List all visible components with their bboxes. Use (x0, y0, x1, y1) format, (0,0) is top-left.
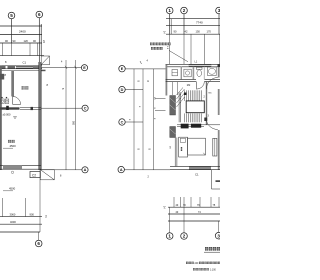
svg-text:40: 40 (176, 211, 179, 214)
svg-text:8: 8 (128, 119, 130, 121)
svg-text:75: 75 (213, 204, 216, 207)
svg-text:8: 8 (5, 60, 7, 64)
svg-text:900: 900 (30, 213, 35, 217)
svg-text:E: E (83, 66, 86, 70)
svg-text:M1: M1 (209, 93, 213, 95)
svg-text:24: 24 (42, 40, 46, 43)
svg-text:2: 2 (204, 96, 206, 99)
svg-text:3: 3 (218, 8, 220, 13)
svg-text:90: 90 (33, 39, 36, 43)
svg-text:2: 2 (183, 8, 186, 13)
svg-text:1:100: 1:100 (210, 270, 216, 272)
svg-text:4500: 4500 (9, 187, 16, 191)
svg-text:4500: 4500 (10, 144, 17, 148)
svg-text:C1: C1 (23, 61, 27, 65)
svg-text:42: 42 (185, 29, 188, 33)
svg-text:C2: C2 (32, 174, 36, 178)
svg-text:C: C (121, 120, 124, 124)
svg-text:6: 6 (37, 241, 40, 246)
svg-text:3: 3 (217, 233, 220, 238)
svg-text:170: 170 (207, 29, 212, 33)
svg-text:±0.000: ±0.000 (3, 113, 11, 117)
svg-text:28: 28 (168, 146, 170, 149)
svg-text:14: 14 (163, 206, 166, 209)
svg-text:1: 1 (168, 234, 171, 239)
svg-text:6: 6 (38, 12, 41, 17)
svg-text:4: 4 (147, 60, 149, 63)
svg-text:3: 3 (208, 115, 210, 118)
svg-text:74: 74 (198, 211, 201, 214)
svg-text:8: 8 (146, 81, 149, 83)
svg-text:8: 8 (138, 106, 140, 108)
svg-text:90: 90 (174, 29, 177, 33)
svg-text:74: 74 (44, 215, 47, 218)
svg-text:8: 8 (61, 88, 64, 90)
svg-text:900: 900 (72, 121, 75, 126)
svg-text:D: D (121, 88, 124, 92)
svg-text:8: 8 (47, 83, 49, 87)
svg-text:150: 150 (196, 29, 201, 33)
svg-text:40: 40 (176, 204, 179, 207)
svg-text:2: 2 (148, 176, 150, 179)
svg-text:14: 14 (163, 31, 166, 34)
svg-text:5: 5 (10, 13, 13, 18)
svg-text:8: 8 (148, 149, 151, 151)
svg-text:70: 70 (183, 204, 186, 207)
svg-text:M2: M2 (187, 84, 191, 87)
svg-text:7740: 7740 (196, 20, 203, 24)
svg-text:8: 8 (137, 149, 140, 151)
svg-text:A: A (120, 168, 123, 172)
svg-text:2: 2 (183, 234, 186, 239)
svg-text:120: 120 (24, 39, 29, 43)
svg-text:2400: 2400 (19, 29, 26, 33)
svg-text:C: C (84, 107, 87, 111)
svg-text:240: 240 (195, 263, 200, 265)
svg-text:8: 8 (137, 81, 140, 83)
svg-text:C1: C1 (195, 173, 199, 177)
svg-text:90: 90 (13, 39, 16, 43)
svg-text:4: 4 (61, 61, 63, 64)
svg-text:A: A (84, 168, 87, 172)
svg-text:1: 1 (168, 8, 171, 13)
svg-text:1.8: 1.8 (166, 46, 168, 50)
svg-text:3060: 3060 (10, 213, 16, 217)
svg-text:E: E (121, 67, 124, 71)
svg-text:L1: L1 (195, 60, 198, 63)
svg-text:8: 8 (60, 175, 62, 178)
svg-text:4000: 4000 (10, 220, 16, 224)
svg-text:8: 8 (5, 73, 7, 77)
svg-text:90: 90 (5, 39, 8, 43)
